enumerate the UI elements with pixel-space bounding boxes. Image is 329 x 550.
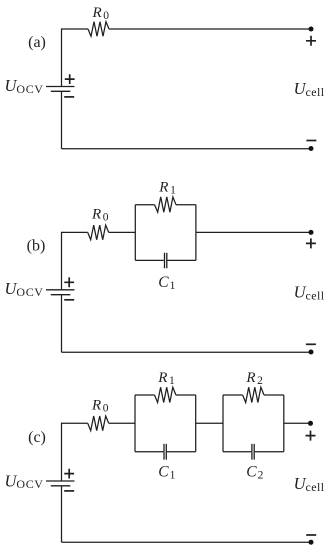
node: (c) negative terminal dot	[309, 540, 314, 545]
wire: (a) left vertical upper	[61, 28, 63, 86]
resistor R0 (b)	[88, 225, 109, 240]
wire: (a) bottom rail	[62, 148, 311, 150]
polarity - at (c) output	[306, 534, 316, 536]
RC box 1 (c): right edge	[195, 395, 197, 452]
wire: (b) left vertical lower	[61, 295, 63, 353]
wire: (c) left vertical lower	[61, 486, 63, 542]
node: (a) negative terminal dot	[309, 146, 314, 151]
node: (b) positive terminal dot	[309, 230, 314, 235]
polarity + at (c) output	[306, 431, 316, 441]
RC box 2 (c): right edge	[283, 395, 285, 452]
wire: (b) bottom rail	[62, 351, 311, 353]
battery U_OCV (c): short negative plate	[51, 485, 71, 487]
RC box 1 (c): top edge with resistor R1	[135, 394, 196, 396]
polarity + at (b) output	[306, 238, 316, 248]
resistor R1 (b)	[155, 197, 176, 212]
battery U_OCV (c): long positive plate	[46, 480, 75, 482]
RC box 2 (c): bottom edge with capacitor gap	[223, 451, 284, 453]
RC parallel box (b): right edge	[195, 205, 197, 261]
polarity - at battery (b)	[64, 299, 74, 301]
RC box 2 (c): top edge with resistor R2	[223, 394, 284, 396]
wire: (a) left vertical lower	[61, 91, 63, 149]
capacitor C1 (c) plates	[164, 444, 166, 460]
polarity + at battery (c)	[64, 469, 74, 479]
polarity - at (b) output	[306, 343, 316, 345]
polarity + at battery (a)	[65, 74, 75, 84]
wire: R0 to first RC box (c)	[109, 422, 135, 424]
wire: (a) top rail right segment	[109, 28, 311, 30]
battery U_OCV (a): long positive plate	[46, 86, 75, 88]
wire: (c) left vertical upper	[61, 423, 63, 481]
wire: (c) bottom rail	[62, 541, 311, 543]
resistor R2 (c)	[243, 387, 264, 402]
battery U_OCV (b): short negative plate	[51, 294, 71, 296]
RC box 1 (c): bottom edge with capacitor gap	[135, 451, 196, 453]
wire: (b) left vertical upper	[61, 232, 63, 290]
RC parallel box (b): left edge	[134, 205, 136, 261]
capacitor C2 (c) plates	[252, 444, 254, 460]
svg-text:(a): (a)	[28, 34, 46, 51]
svg-text:(c): (c)	[28, 429, 46, 446]
resistor R0 (a)	[88, 22, 109, 37]
node: (a) positive terminal dot	[309, 27, 314, 32]
wire: (b) main rail to R0	[62, 231, 88, 233]
wire: (a) top rail left segment	[62, 28, 89, 30]
battery U_OCV (b): long positive plate	[46, 289, 75, 291]
resistor R1 (c)	[155, 387, 176, 402]
wire: box1 to box2 (c)	[196, 422, 223, 424]
wire: box to output (b)	[196, 231, 311, 233]
RC box 2 (c): left edge	[222, 395, 224, 452]
svg-text:(b): (b)	[27, 237, 46, 254]
RC parallel box (b): bottom edge with capacitor gap	[135, 259, 196, 261]
polarity + at (a) output	[306, 36, 316, 46]
polarity + at battery (b)	[64, 277, 74, 287]
polarity - at (a) output	[306, 140, 316, 142]
battery U_OCV (a): short negative plate	[51, 90, 71, 92]
capacitor C1 (b) plates	[165, 253, 167, 268]
RC parallel box (b): top edge with resistor R1	[135, 204, 196, 206]
polarity - at battery (c)	[64, 490, 74, 492]
node: (b) negative terminal dot	[309, 350, 314, 355]
node: (c) positive terminal dot	[308, 421, 313, 426]
resistor R0 (c)	[88, 416, 109, 431]
wire: box2 to output (c)	[284, 422, 311, 424]
polarity - at battery (a)	[64, 96, 74, 98]
RC box 1 (c): left edge	[134, 395, 136, 452]
wire: (c) main rail to R0	[62, 422, 88, 424]
wire: R0 to RC box (b)	[109, 231, 136, 233]
